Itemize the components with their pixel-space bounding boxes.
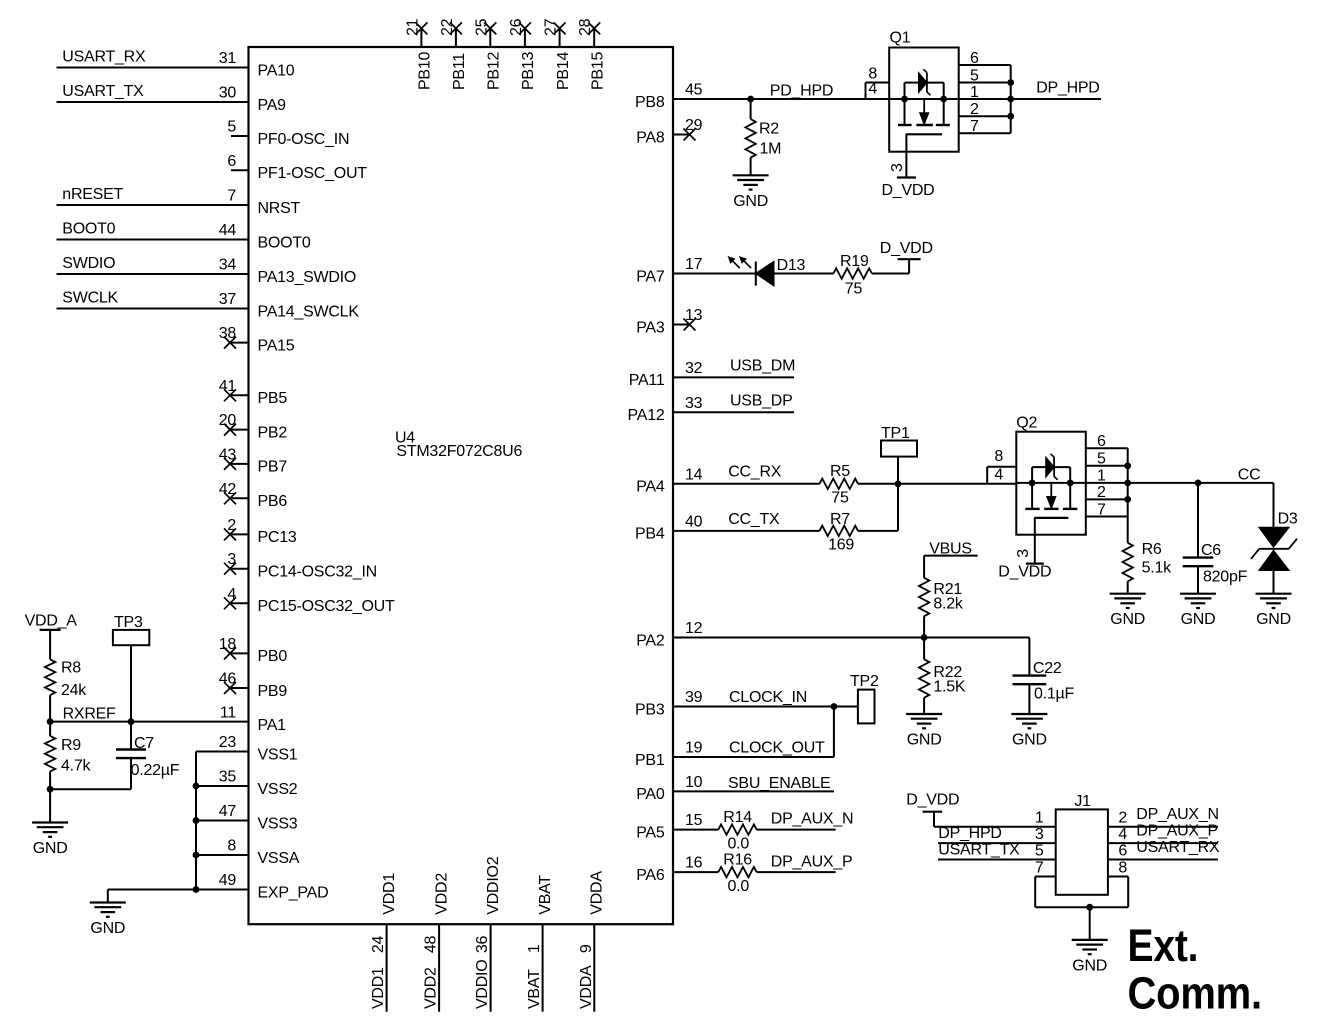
pin 27 PB14 (U4 top, no-connect) [543, 18, 572, 90]
svg-text:6: 6 [227, 153, 236, 170]
svg-text:VDD2: VDD2 [423, 967, 440, 1009]
net CLOCK_IN wire (PB3 pin 39) [673, 689, 858, 707]
pin 46 PB9 (U4 left) [219, 671, 288, 700]
svg-text:19: 19 [685, 740, 703, 757]
svg-text:PA13_SWDIO: PA13_SWDIO [258, 269, 357, 286]
pin 22 PB11 (U4 top, no-connect) [439, 18, 468, 90]
junction node VSS3/bus [193, 817, 200, 824]
svg-text:43: 43 [219, 446, 237, 463]
svg-text:0.0: 0.0 [728, 835, 750, 852]
svg-text:23: 23 [219, 734, 237, 751]
svg-text:5: 5 [970, 67, 979, 84]
pin 31 PA10 (U4 left) [219, 50, 295, 79]
svg-text:USB_DM: USB_DM [730, 358, 795, 375]
svg-text:7: 7 [227, 188, 236, 205]
net USART_RX wire (J1 pin 6) [1108, 839, 1220, 860]
svg-text:PB8: PB8 [635, 94, 665, 111]
svg-text:PA4: PA4 [636, 479, 665, 496]
svg-text:17: 17 [685, 256, 703, 273]
svg-text:24k: 24k [61, 682, 87, 699]
svg-text:VSS2: VSS2 [258, 781, 298, 798]
pin 29 PA8 (U4 right) [636, 117, 702, 146]
svg-text:GND: GND [1072, 957, 1107, 974]
svg-text:42: 42 [219, 481, 237, 498]
svg-text:TP1: TP1 [881, 425, 910, 442]
pin 16 PA6 (U4 right) [636, 855, 702, 884]
svg-text:VSSA: VSSA [258, 850, 300, 867]
svg-text:0.0: 0.0 [728, 878, 750, 895]
svg-text:PB10: PB10 [417, 52, 434, 90]
svg-text:14: 14 [685, 466, 703, 483]
svg-text:VBAT: VBAT [526, 969, 543, 1009]
svg-text:BOOT0: BOOT0 [258, 234, 311, 251]
junction node CC_RX/R7/TP1 [895, 480, 902, 487]
pin 13 PA3 (U4 right) [636, 307, 702, 336]
transistor Q2 (dual MOSFET) body [1016, 415, 1086, 535]
svg-text:GND: GND [1012, 732, 1047, 749]
svg-text:PB5: PB5 [258, 390, 288, 407]
svg-text:R19: R19 [840, 253, 869, 270]
svg-text:44: 44 [219, 222, 237, 239]
svg-text:8.2k: 8.2k [933, 596, 963, 613]
Q1 gate pins 8/4 bracket [866, 66, 890, 99]
junction node RXREF/TP3/C7 [128, 718, 135, 725]
svg-text:GND: GND [733, 193, 768, 210]
svg-text:R16: R16 [723, 852, 752, 869]
junction node PD_HPD/R2 [747, 96, 754, 103]
svg-text:41: 41 [219, 378, 237, 395]
svg-text:39: 39 [685, 689, 703, 706]
svg-text:CC_TX: CC_TX [728, 511, 780, 528]
resistor R6 5.1k [1123, 517, 1173, 594]
net SBU_ENABLE wire (PA0 pin 10) [673, 775, 834, 792]
svg-text:DP_AUX_N: DP_AUX_N [771, 810, 853, 827]
resistor R9 4.7k [45, 722, 92, 790]
net USB_DM wire + label (PA11 pin 32) [673, 358, 795, 378]
svg-text:5.1k: 5.1k [1142, 559, 1172, 576]
svg-text:49: 49 [219, 872, 237, 889]
pin 37 PA14_SWCLK (U4 left) [219, 291, 360, 320]
svg-text:21: 21 [404, 18, 421, 36]
svg-text:6: 6 [1097, 433, 1106, 450]
net PD_HPD wire (PB8 pin 45 to Q1) [673, 83, 889, 100]
svg-text:PA14_SWCLK: PA14_SWCLK [258, 303, 360, 320]
svg-text:PF1-OSC_OUT: PF1-OSC_OUT [258, 165, 368, 182]
svg-text:PD_HPD: PD_HPD [770, 83, 833, 100]
svg-text:6: 6 [1118, 843, 1127, 860]
svg-text:3: 3 [1035, 826, 1044, 843]
wire R9/C7 bottom [50, 788, 131, 790]
svg-text:2: 2 [227, 517, 236, 534]
svg-text:CLOCK_OUT: CLOCK_OUT [729, 740, 825, 757]
svg-text:DP_HPD: DP_HPD [1036, 80, 1099, 97]
svg-text:PA11: PA11 [629, 372, 665, 389]
ground (EXP_PAD) [90, 903, 126, 938]
svg-text:PB12: PB12 [486, 52, 503, 90]
pin 32 PA11 (U4 right) [629, 360, 703, 389]
svg-text:Comm.: Comm. [1128, 967, 1262, 1018]
svg-text:TP3: TP3 [114, 614, 143, 631]
svg-text:0.22µF: 0.22µF [131, 762, 180, 779]
svg-text:GND: GND [1181, 611, 1216, 628]
pin 21 PB10 (U4 top, no-connect) [404, 18, 433, 90]
net CC_TX wire (PB4 pin 40) [673, 511, 820, 531]
svg-text:GND: GND [33, 840, 68, 857]
svg-text:VDD1: VDD1 [370, 967, 387, 1009]
svg-text:PA2: PA2 [636, 632, 665, 649]
pin 24 VDD1 (U4 bottom) + net VDD1 [370, 873, 398, 1012]
net BOOT0 wire + label [57, 221, 249, 240]
svg-text:4: 4 [994, 467, 1003, 484]
resistor R14 0.0 + net DP_AUX_N (PA5 pin 15) [673, 809, 853, 852]
pin 12 PA2 (U4 right) [636, 620, 702, 649]
svg-text:8: 8 [227, 838, 236, 855]
resistor R2 1M [745, 99, 781, 175]
svg-text:NRST: NRST [258, 200, 301, 217]
pin 35 VSS2 (U4 left) [219, 769, 298, 798]
svg-text:C6: C6 [1201, 542, 1221, 559]
pin 8 VSSA (U4 left) [227, 838, 299, 867]
pin 17 PA7 (U4 right) [636, 256, 702, 285]
svg-text:TP2: TP2 [850, 673, 879, 690]
svg-text:1: 1 [970, 84, 979, 101]
pin 3 PC14-OSC32_IN (U4 left) [224, 551, 377, 580]
svg-text:1: 1 [1035, 810, 1044, 827]
svg-text:6: 6 [970, 50, 979, 67]
wire VSS2 to bus [196, 785, 249, 787]
svg-text:5: 5 [1097, 451, 1106, 468]
svg-text:PF0-OSC_IN: PF0-OSC_IN [258, 131, 350, 148]
Q2 gate pins 8/4 bracket [987, 448, 1016, 484]
svg-text:24: 24 [370, 935, 387, 953]
junction node VSSA/bus [193, 852, 200, 859]
ground (J1) [1072, 907, 1108, 974]
transistor Q1 (dual MOSFET) body [889, 30, 959, 152]
svg-text:VDD2: VDD2 [433, 873, 450, 915]
svg-text:PB14: PB14 [555, 52, 572, 90]
svg-text:D_VDD: D_VDD [906, 792, 959, 809]
svg-text:VDDA: VDDA [589, 871, 606, 915]
svg-text:4.7k: 4.7k [61, 758, 91, 775]
svg-text:GND: GND [907, 732, 942, 749]
pin 47 VSS3 (U4 left) [219, 803, 298, 832]
svg-text:820pF: 820pF [1203, 569, 1248, 586]
svg-text:USB_DP: USB_DP [730, 392, 793, 409]
svg-text:USART_RX: USART_RX [62, 49, 146, 66]
pin 18 PB0 (U4 left) [219, 636, 288, 665]
svg-text:PA7: PA7 [636, 268, 665, 285]
svg-text:PB13: PB13 [520, 52, 537, 90]
power D_VDD (J1 pin 1) [906, 792, 1055, 827]
svg-text:PA6: PA6 [636, 867, 665, 884]
svg-text:PB7: PB7 [258, 459, 288, 476]
svg-text:GND: GND [1256, 611, 1291, 628]
pin 43 PB7 (U4 left) [219, 446, 288, 475]
net DP_AUX_P wire (J1 pin 4) [1108, 823, 1218, 844]
pin 39 PB3 (U4 right) [635, 689, 703, 718]
svg-text:DP_AUX_P: DP_AUX_P [771, 854, 853, 871]
svg-text:33: 33 [685, 395, 703, 412]
J1 pin 7 wire to ground [1035, 877, 1090, 908]
net USART_TX wire + label [57, 83, 249, 102]
svg-text:18: 18 [219, 636, 237, 653]
caption Ext. Comm. [1128, 920, 1262, 1018]
svg-text:SWCLK: SWCLK [62, 290, 118, 307]
svg-text:USART_TX: USART_TX [938, 841, 1020, 858]
power VDD_A [25, 613, 78, 660]
net CC wire + label [1128, 467, 1274, 484]
net DP_HPD wire (J1 pin 3) [938, 825, 1056, 843]
svg-text:PC14-OSC32_IN: PC14-OSC32_IN [258, 564, 377, 581]
svg-text:PB6: PB6 [258, 493, 288, 510]
svg-text:3: 3 [889, 163, 906, 172]
junction node RXREF/R8/R9 [47, 718, 54, 725]
svg-text:D_VDD: D_VDD [880, 240, 933, 257]
svg-text:25: 25 [473, 18, 490, 36]
net RXREF wire (PA1 pin 11) [50, 705, 248, 722]
ground (below C22) [1011, 714, 1047, 749]
svg-text:32: 32 [685, 360, 703, 377]
svg-text:1: 1 [526, 944, 543, 953]
svg-text:Ext.: Ext. [1128, 920, 1199, 971]
svg-text:VSS3: VSS3 [258, 815, 298, 832]
svg-text:Q2: Q2 [1016, 415, 1037, 432]
pin 19 PB1 (U4 right) [635, 740, 703, 769]
svg-text:PB9: PB9 [258, 683, 288, 700]
resistor R8 24k [45, 659, 87, 721]
svg-text:29: 29 [685, 117, 703, 134]
net VBUS label [924, 541, 978, 578]
junction node J1 ground [1086, 904, 1093, 911]
svg-text:DP_AUX_P: DP_AUX_P [1136, 823, 1218, 840]
net DP_AUX_N wire (J1 pin 2) [1108, 806, 1219, 827]
svg-text:EXP_PAD: EXP_PAD [258, 884, 329, 901]
resistor R19 75 [833, 253, 909, 298]
svg-text:USART_RX: USART_RX [1136, 839, 1220, 856]
pin 15 PA5 (U4 right) [636, 812, 702, 841]
pin 28 PB15 (U4 top, no-connect) [577, 18, 606, 90]
svg-text:1: 1 [1097, 468, 1106, 485]
svg-text:PA0: PA0 [636, 786, 665, 803]
svg-text:CC_RX: CC_RX [728, 464, 782, 481]
svg-text:VSS1: VSS1 [258, 746, 298, 763]
svg-text:R5: R5 [830, 463, 850, 480]
junction node CLOCK_IN/CLOCK_OUT [831, 703, 838, 710]
junction node PA2/R21/R22 [921, 634, 928, 641]
svg-text:PA1: PA1 [258, 717, 287, 734]
svg-text:PB1: PB1 [635, 752, 665, 769]
pin 11 PA1 (U4 left) [220, 705, 286, 734]
svg-text:PA9: PA9 [258, 97, 287, 114]
svg-text:D_VDD: D_VDD [882, 182, 935, 199]
pin 38 PA15 (U4 left) [219, 325, 295, 354]
svg-text:13: 13 [685, 307, 703, 324]
ground (below R6) [1110, 594, 1146, 629]
net USART_TX wire (J1 pin 5) [938, 841, 1056, 859]
Q1 right pins 6,5,1,2,7 with bus [959, 50, 1014, 135]
net nRESET wire + label [57, 186, 249, 205]
pin 9 VDDA (U4 bottom) + net VDDA [578, 871, 606, 1012]
svg-text:PB0: PB0 [258, 648, 288, 665]
svg-text:28: 28 [577, 18, 594, 36]
svg-text:USART_TX: USART_TX [62, 83, 144, 100]
net SWCLK wire + label [57, 290, 249, 309]
svg-text:27: 27 [543, 18, 560, 36]
TVS diode D3 [1251, 483, 1298, 594]
svg-text:VDDA: VDDA [578, 965, 595, 1009]
net SWDIO wire + label [57, 255, 249, 274]
svg-text:RXREF: RXREF [63, 705, 116, 722]
svg-text:20: 20 [219, 412, 237, 429]
svg-text:C22: C22 [1033, 660, 1062, 677]
svg-text:31: 31 [219, 50, 237, 67]
svg-text:D_VDD: D_VDD [998, 564, 1051, 581]
power D_VDD (R19 pull-up) [880, 240, 933, 274]
test point TP2 [850, 673, 879, 723]
pin 7 NRST (U4 left) [227, 188, 300, 217]
svg-text:7: 7 [1035, 860, 1044, 877]
svg-text:GND: GND [90, 920, 125, 937]
svg-text:VDDIO2: VDDIO2 [485, 856, 502, 914]
wire VSS1 to bus [196, 751, 249, 753]
svg-text:0.1µF: 0.1µF [1034, 686, 1074, 703]
svg-text:SWDIO: SWDIO [62, 255, 115, 272]
svg-text:12: 12 [685, 620, 703, 637]
pin 14 PA4 (U4 right) [636, 466, 702, 495]
capacitor C7 0.22uF [116, 722, 180, 790]
svg-text:35: 35 [219, 769, 237, 786]
svg-text:37: 37 [219, 291, 237, 308]
svg-text:75: 75 [845, 281, 863, 298]
pin 4 PC15-OSC32_OUT (U4 left) [224, 586, 395, 615]
wire VSS bus vertical [195, 752, 197, 890]
svg-text:5: 5 [1035, 843, 1044, 860]
pin 30 PA9 (U4 left) [219, 85, 286, 114]
svg-text:J1: J1 [1074, 793, 1091, 810]
svg-text:R2: R2 [759, 121, 779, 138]
svg-text:D3: D3 [1278, 510, 1298, 527]
svg-text:PC15-OSC32_OUT: PC15-OSC32_OUT [258, 598, 395, 615]
svg-text:45: 45 [685, 82, 703, 99]
svg-text:PB11: PB11 [451, 53, 468, 90]
junction node CC/C6 [1195, 480, 1202, 487]
pin 45 PB8 (U4 right) [635, 82, 703, 111]
pin 20 PB2 (U4 left) [219, 412, 288, 441]
svg-text:PB15: PB15 [590, 52, 607, 90]
pin 34 PA13_SWDIO (U4 left) [219, 257, 356, 286]
svg-text:8: 8 [1118, 860, 1127, 877]
pin 42 PB6 (U4 left) [219, 481, 288, 510]
svg-text:PA15: PA15 [258, 337, 295, 354]
net USART_RX wire + label [57, 49, 249, 68]
svg-text:PA5: PA5 [636, 824, 665, 841]
connector J1 body [1056, 793, 1108, 895]
power D_VDD (Q2 pin 3) [998, 535, 1051, 581]
junction node VSS2/bus [193, 783, 200, 790]
svg-text:GND: GND [1110, 611, 1145, 628]
resistor R22 1.5K [919, 638, 966, 715]
wire VSSA to bus [196, 854, 249, 856]
J1 pin 8 wire to ground [1090, 877, 1129, 908]
svg-text:7: 7 [1097, 501, 1106, 518]
ground (below R22) [906, 714, 942, 749]
IC U4 STM32F072C8U6 body [249, 47, 674, 924]
svg-text:30: 30 [219, 85, 237, 102]
svg-text:15: 15 [685, 812, 703, 829]
svg-text:5: 5 [227, 119, 236, 136]
pin 36 VDDIO2 (U4 bottom) + net VDDIO [474, 856, 502, 1011]
resistor R5 75 [820, 463, 1017, 507]
svg-text:46: 46 [219, 671, 237, 688]
svg-text:1M: 1M [760, 141, 782, 158]
junction node R9/C7/GND [47, 786, 54, 793]
svg-text:PA12: PA12 [628, 407, 665, 424]
svg-text:VBAT: VBAT [537, 875, 554, 915]
pin 5 PF0-OSC_IN (U4 left) [227, 119, 349, 148]
net USB_DP wire + label (PA12 pin 33) [673, 392, 794, 412]
svg-text:R8: R8 [61, 660, 81, 677]
wire VSS3 to bus [196, 820, 249, 822]
svg-text:16: 16 [685, 855, 703, 872]
resistor R21 8.2k [919, 578, 964, 638]
svg-text:BOOT0: BOOT0 [62, 221, 115, 238]
test point TP1 [881, 425, 917, 484]
svg-text:PB2: PB2 [258, 424, 288, 441]
svg-text:4: 4 [227, 586, 236, 603]
svg-text:C7: C7 [134, 735, 154, 752]
svg-text:R7: R7 [830, 511, 850, 528]
svg-text:34: 34 [219, 257, 237, 274]
svg-text:11: 11 [220, 705, 236, 722]
pin 25 PB12 (U4 top, no-connect) [473, 18, 502, 90]
svg-text:22: 22 [439, 18, 456, 36]
svg-text:75: 75 [831, 489, 849, 506]
svg-text:36: 36 [474, 935, 491, 953]
svg-text:47: 47 [219, 803, 237, 820]
pin 6 PF1-OSC_OUT (U4 left) [227, 153, 367, 182]
svg-text:2: 2 [1097, 484, 1106, 501]
svg-text:8: 8 [994, 448, 1003, 465]
svg-text:38: 38 [219, 325, 237, 342]
svg-text:STM32F072C8U6: STM32F072C8U6 [396, 443, 522, 460]
wire PA7 pin 17 to LED [673, 273, 756, 275]
svg-text:CC: CC [1238, 467, 1261, 484]
net DP_HPD wire + label [1011, 80, 1101, 100]
svg-text:26: 26 [508, 18, 525, 36]
pin 49 EXP_PAD (U4 left) [219, 872, 329, 901]
svg-text:3: 3 [227, 551, 236, 568]
Q2 right pins 6,5,1,2,7 with bus [1086, 433, 1131, 518]
wire PA2 pin 12 net [673, 638, 1029, 676]
svg-text:R6: R6 [1142, 541, 1162, 558]
svg-text:4: 4 [1118, 826, 1127, 843]
svg-text:1.5K: 1.5K [933, 679, 965, 696]
power D_VDD (Q1 pin 3) [882, 152, 935, 199]
test point TP3 [113, 614, 149, 722]
svg-text:40: 40 [685, 513, 703, 530]
svg-text:PB3: PB3 [635, 701, 665, 718]
svg-text:SBU_ENABLE: SBU_ENABLE [728, 775, 830, 792]
svg-text:PA3: PA3 [636, 319, 665, 336]
svg-text:4: 4 [868, 81, 877, 98]
svg-text:VDDIO: VDDIO [474, 960, 491, 1009]
net CC_RX wire (PA4 pin 14) [673, 464, 820, 484]
junction node EXP_PAD/bus [193, 886, 200, 893]
svg-text:D13: D13 [777, 257, 806, 274]
pin 44 BOOT0 (U4 left) [219, 222, 311, 251]
svg-text:PB4: PB4 [635, 526, 665, 543]
svg-text:nRESET: nRESET [62, 186, 123, 203]
